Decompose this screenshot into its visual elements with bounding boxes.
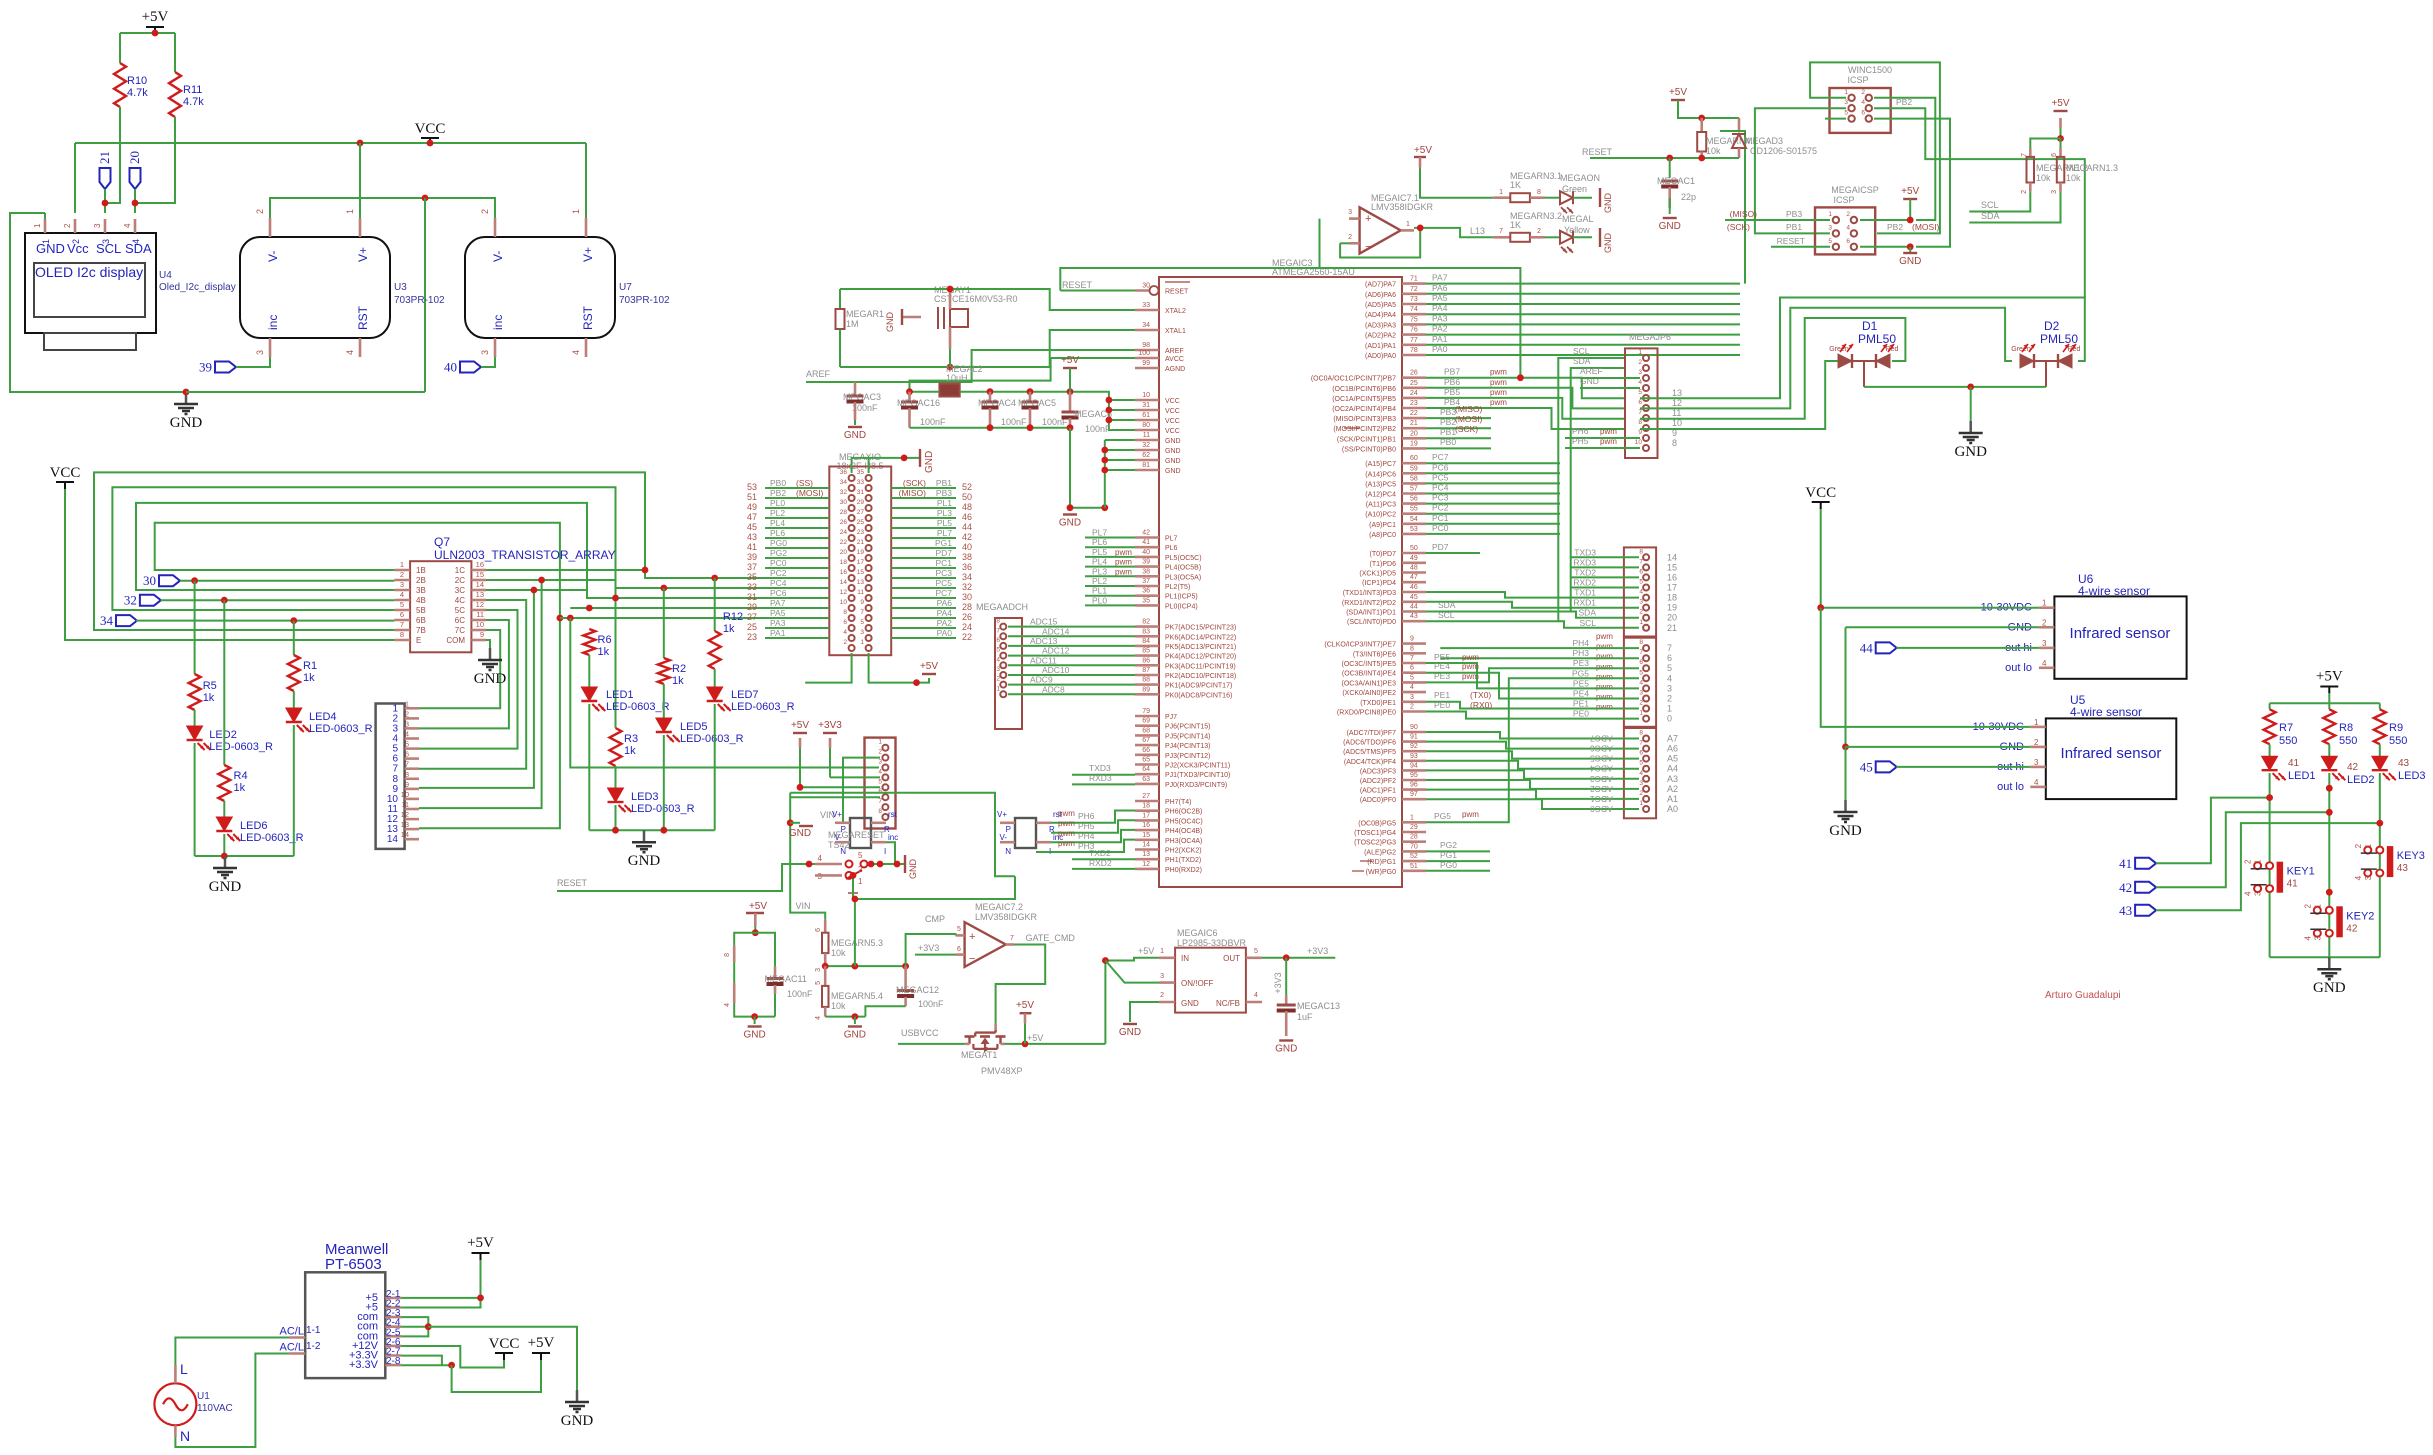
MCU pin 72 (AD6)PA6 xyxy=(1402,292,1426,295)
svg-text:ADC0: ADC0 xyxy=(1590,804,1613,814)
svg-text:R3: R3 xyxy=(624,733,638,745)
wire ICSP MISO row xyxy=(1725,219,1830,221)
MCU pin 2 (RXD0/PCIN8)PE0 xyxy=(1402,710,1426,713)
svg-text:41: 41 xyxy=(2119,856,2132,871)
svg-text:11: 11 xyxy=(857,589,864,596)
ground GND (crystal) xyxy=(902,316,921,318)
svg-text:8: 8 xyxy=(1410,645,1414,652)
flag 30 xyxy=(159,575,180,586)
junction sensor supply xyxy=(1817,604,1824,611)
svg-text:100nF: 100nF xyxy=(787,989,813,999)
junction caps bottom C6 xyxy=(1067,424,1074,431)
wire KEY3 links xyxy=(2379,854,2381,869)
LED LED3 (keys) xyxy=(2379,744,2381,756)
svg-text:3B: 3B xyxy=(416,586,426,595)
svg-text:MEGAC13: MEGAC13 xyxy=(1297,1001,1340,1011)
svg-text:42: 42 xyxy=(2346,923,2358,934)
svg-text:28: 28 xyxy=(1410,834,1418,841)
svg-text:9: 9 xyxy=(480,630,484,639)
svg-text:4: 4 xyxy=(843,629,847,636)
svg-text:41: 41 xyxy=(2288,758,2300,769)
svg-text:(SS/PCINT0)PB0: (SS/PCINT0)PB0 xyxy=(1342,446,1396,453)
wire RXD3 xyxy=(1072,783,1135,785)
svg-text:MEGARN5.3: MEGARN5.3 xyxy=(831,938,883,948)
junction crystal top xyxy=(947,286,954,293)
svg-text:Yellow: Yellow xyxy=(1564,225,1590,235)
wires module right to PH rows xyxy=(1051,811,1135,823)
svg-text:1B: 1B xyxy=(416,566,426,575)
svg-text:GND: GND xyxy=(743,1030,765,1041)
junction SCL xyxy=(102,200,109,207)
svg-text:2: 2 xyxy=(1846,211,1850,218)
wire XIO left row PA3 xyxy=(765,627,829,629)
svg-text:29: 29 xyxy=(747,602,757,612)
MCU pin 60 (A15)PC7 xyxy=(1402,462,1426,465)
svg-text:12: 12 xyxy=(1142,861,1150,868)
wire CMP to op-amp + xyxy=(906,934,956,966)
svg-text:SCL: SCL xyxy=(1981,200,1999,210)
svg-text:10: 10 xyxy=(1142,392,1150,399)
svg-text:8: 8 xyxy=(1639,639,1643,646)
wire PE1 to header xyxy=(1426,702,1639,709)
svg-text:PA2: PA2 xyxy=(937,618,953,628)
svg-text:SCL: SCL xyxy=(1438,610,1455,620)
svg-text:PJ3(PCINT12): PJ3(PCINT12) xyxy=(1165,753,1211,760)
svg-text:PH3: PH3 xyxy=(1078,841,1095,851)
wire XIO left row PL0 xyxy=(765,507,829,509)
svg-text:+5V: +5V xyxy=(2051,98,2069,109)
MCU pin 86 PK3(ADC11/PCINT19) xyxy=(1135,664,1159,667)
wire PE4 to header xyxy=(1426,673,1639,699)
wire op-amp minus input xyxy=(1340,242,1349,244)
svg-text:2: 2 xyxy=(878,749,882,756)
svg-text:2: 2 xyxy=(1861,89,1865,96)
MCU pin 11 GND xyxy=(1135,439,1159,442)
svg-text:75: 75 xyxy=(1410,316,1418,323)
svg-text:SCL: SCL xyxy=(1573,346,1590,356)
svg-text:5: 5 xyxy=(1639,669,1643,676)
wire XIO left row PL6 xyxy=(765,537,829,539)
svg-text:7: 7 xyxy=(1010,935,1014,942)
flag 44 xyxy=(1876,642,1897,653)
svg-text:(AD7)PA7: (AD7)PA7 xyxy=(1365,282,1396,289)
svg-text:50: 50 xyxy=(962,492,972,502)
svg-text:pwm: pwm xyxy=(1600,437,1617,446)
MCU pin 4 (XCK0/AIN0)PE2 xyxy=(1402,691,1426,694)
svg-text:GND: GND xyxy=(1181,999,1199,1008)
ground GND (caps) xyxy=(1063,513,1077,515)
MCU pin 55 (A10)PC2 xyxy=(1402,512,1426,515)
svg-text:(OC0A/OC1C/PCINT7)PB7: (OC0A/OC1C/PCINT7)PB7 xyxy=(1311,376,1396,383)
svg-text:4C: 4C xyxy=(455,596,465,605)
resistor MEGARN4.1 10k xyxy=(1700,118,1703,132)
transistor MEGAT1 PMV48XP xyxy=(994,1024,997,1030)
svg-text:3: 3 xyxy=(2051,190,2058,194)
svg-text:2: 2 xyxy=(1638,359,1642,366)
svg-text:PG2: PG2 xyxy=(1440,840,1457,850)
svg-text:GND: GND xyxy=(1165,438,1181,445)
wire PA7 riser xyxy=(1720,131,1745,284)
svg-text:3: 3 xyxy=(2034,758,2039,767)
wire AVCC xyxy=(1051,357,1135,359)
svg-text:4: 4 xyxy=(2303,936,2312,941)
pins AC/L xyxy=(289,1336,305,1339)
junction V- rail xyxy=(422,195,429,202)
svg-text:(SCL/INT0)PD0: (SCL/INT0)PD0 xyxy=(1347,619,1396,626)
svg-text:703PR-102: 703PR-102 xyxy=(394,295,445,306)
ground GND (keys) xyxy=(2328,957,2331,969)
svg-text:SCL: SCL xyxy=(96,241,121,256)
ground GND (OLED) xyxy=(185,392,188,404)
svg-text:3: 3 xyxy=(2254,891,2263,896)
svg-text:25: 25 xyxy=(747,622,757,632)
svg-text:42: 42 xyxy=(2347,762,2359,773)
ground GND (MEGAL) xyxy=(1599,228,1601,247)
svg-text:3: 3 xyxy=(1639,690,1643,697)
svg-text:COM: COM xyxy=(446,636,465,645)
svg-text:VIN: VIN xyxy=(796,901,811,911)
junction rail LED3 xyxy=(612,827,619,834)
svg-text:64: 64 xyxy=(1142,766,1150,773)
svg-text:GND: GND xyxy=(170,415,203,431)
svg-text:55: 55 xyxy=(1410,506,1418,513)
svg-text:Arturo Guadalupi: Arturo Guadalupi xyxy=(2045,990,2121,1001)
wire +5V to R10/R11 xyxy=(119,32,121,34)
svg-text:3: 3 xyxy=(1639,780,1643,787)
wire crystal bottom rail (XTAL1) xyxy=(840,330,1135,367)
connector 8-pin (MEGARESET) xyxy=(865,738,896,829)
wire GND rail (right chains) xyxy=(589,829,714,831)
svg-text:MEGARN5.4: MEGARN5.4 xyxy=(831,991,883,1001)
svg-text:MEGAC12: MEGAC12 xyxy=(896,985,939,995)
svg-text:3: 3 xyxy=(405,719,409,728)
MCU pin 69 PJ6(PCINT15) xyxy=(1135,724,1159,727)
svg-text:1-1: 1-1 xyxy=(306,1325,321,1336)
svg-text:V-: V- xyxy=(266,251,280,262)
svg-text:R1: R1 xyxy=(303,660,317,672)
svg-text:27: 27 xyxy=(857,509,865,516)
svg-text:11: 11 xyxy=(1143,432,1150,439)
MCU pin 81 GND xyxy=(1135,469,1159,472)
resistor R6 xyxy=(583,629,595,655)
svg-text:AC/L: AC/L xyxy=(280,1342,304,1354)
svg-text:550: 550 xyxy=(2339,735,2357,747)
svg-text:GND: GND xyxy=(1059,518,1081,529)
MCU pin 36 PL1(ICP5) xyxy=(1135,594,1159,597)
svg-text:12: 12 xyxy=(1672,398,1682,408)
svg-text:+5V: +5V xyxy=(749,901,767,912)
ground GND (C13) xyxy=(1279,1039,1293,1041)
svg-text:+5V: +5V xyxy=(1061,355,1079,366)
MCU pin 49 (T1)PD6 xyxy=(1402,561,1426,564)
svg-text:56: 56 xyxy=(1410,496,1418,503)
svg-text:GND: GND xyxy=(209,879,242,895)
svg-text:2: 2 xyxy=(1639,700,1643,707)
wire Q7 pin11 to conn pin3 xyxy=(419,620,509,728)
MCU pin 46 (TXD1/INT3)PD3 xyxy=(1402,591,1426,594)
wire ADC14 xyxy=(1008,635,1135,637)
capacitor MEGAC5 100nF xyxy=(1029,392,1032,402)
svg-text:30: 30 xyxy=(840,499,848,506)
svg-text:4: 4 xyxy=(2244,891,2253,896)
svg-text:VCC: VCC xyxy=(1165,428,1180,435)
svg-text:PB2: PB2 xyxy=(1887,222,1903,232)
wire flag21 to OLED SCL xyxy=(104,189,106,213)
svg-text:3: 3 xyxy=(1410,694,1414,701)
svg-text:PH5: PH5 xyxy=(1572,436,1589,446)
svg-text:8: 8 xyxy=(1638,419,1642,426)
svg-text:pwm: pwm xyxy=(1596,672,1613,681)
wire PH3 stub xyxy=(1440,657,1639,659)
junction caps rail C16 xyxy=(906,388,913,395)
svg-text:PB0: PB0 xyxy=(770,478,786,488)
svg-text:48: 48 xyxy=(962,502,972,512)
wire Q7 pin13 to conn pin7 xyxy=(419,600,526,769)
MCU pin 91 (ADC6/TDO)PF6 xyxy=(1402,740,1426,743)
svg-text:PL4: PL4 xyxy=(1092,557,1107,567)
svg-text:(AD5)PA5: (AD5)PA5 xyxy=(1365,302,1396,309)
wire WINC pin4 right xyxy=(1874,108,2085,297)
junction rail R4 xyxy=(221,853,228,860)
svg-text:PC4: PC4 xyxy=(770,578,787,588)
svg-text:PH7(T4): PH7(T4) xyxy=(1165,799,1191,806)
svg-text:pwm: pwm xyxy=(1462,653,1479,662)
svg-text:20: 20 xyxy=(1410,430,1418,437)
svg-text:GND: GND xyxy=(789,828,811,839)
svg-text:PB3: PB3 xyxy=(936,488,952,498)
svg-text:57: 57 xyxy=(1410,486,1418,493)
wire GND rail xyxy=(186,391,425,393)
svg-text:+5V: +5V xyxy=(1669,87,1687,98)
MCU pin 10 VCC xyxy=(1135,399,1159,402)
svg-text:LP2985-33DBVR: LP2985-33DBVR xyxy=(1177,938,1247,948)
svg-text:6: 6 xyxy=(400,610,404,619)
svg-text:22: 22 xyxy=(962,632,972,642)
svg-text:3: 3 xyxy=(2042,639,2047,648)
svg-text:44: 44 xyxy=(1860,640,1874,655)
svg-text:46: 46 xyxy=(1410,584,1418,591)
wire +5V rail keys xyxy=(2328,693,2330,709)
MCU pin 1 (OC0B)PG5 xyxy=(1402,821,1426,824)
svg-text:PB2: PB2 xyxy=(1440,417,1456,427)
svg-text:6: 6 xyxy=(1639,568,1643,575)
resistor R12 xyxy=(714,578,716,631)
MCU pin 84 PK5(ADC13/PCINT21) xyxy=(1135,645,1159,648)
wires JP6 PH6/PH5 xyxy=(1565,437,1640,439)
junction conn13/L4 row27 xyxy=(557,615,564,622)
svg-text:7: 7 xyxy=(400,620,404,629)
svg-text:PC6: PC6 xyxy=(1432,462,1449,472)
svg-text:V-: V- xyxy=(999,833,1007,842)
svg-text:(SDA/INT1)PD1: (SDA/INT1)PD1 xyxy=(1346,610,1396,617)
svg-text:94: 94 xyxy=(1410,762,1418,769)
svg-text:PD7: PD7 xyxy=(935,548,952,558)
MCU pin 48 (XCK1)PD5 xyxy=(1402,571,1426,574)
svg-text:(TXD1/INT3)PD3: (TXD1/INT3)PD3 xyxy=(1343,590,1396,597)
svg-text:41: 41 xyxy=(1142,539,1150,546)
svg-text:AREF: AREF xyxy=(1165,348,1184,355)
svg-text:78: 78 xyxy=(1410,347,1418,354)
svg-text:(OC3C/INT5)PE5: (OC3C/INT5)PE5 xyxy=(1342,661,1397,668)
svg-text:XTAL2: XTAL2 xyxy=(1165,308,1186,315)
svg-text:MEGARN1.3: MEGARN1.3 xyxy=(2066,163,2118,173)
svg-text:PH6(OC2B): PH6(OC2B) xyxy=(1165,809,1202,816)
svg-text:pwm: pwm xyxy=(1115,567,1132,576)
svg-text:1k: 1k xyxy=(598,646,610,658)
MCU pin 19 (SS/PCINT0)PB0 xyxy=(1402,447,1426,450)
svg-text:49: 49 xyxy=(1410,555,1418,562)
wire divider to switch loop xyxy=(854,899,856,966)
svg-text:5: 5 xyxy=(405,740,409,749)
wire XIO left row PC6 xyxy=(765,597,829,599)
switch KEY3 xyxy=(2364,847,2371,854)
svg-text:1: 1 xyxy=(1406,221,1410,228)
svg-text:15: 15 xyxy=(476,570,484,579)
svg-text:PG1: PG1 xyxy=(1440,850,1457,860)
svg-text:77: 77 xyxy=(1410,337,1418,344)
svg-text:U4: U4 xyxy=(159,270,172,281)
svg-text:PC2: PC2 xyxy=(1432,503,1449,513)
wire PL row PL1 xyxy=(1085,595,1135,597)
svg-text:A2: A2 xyxy=(1667,784,1678,794)
svg-text:+: + xyxy=(969,931,975,943)
capacitor MEGAC1 22p xyxy=(1669,158,1671,178)
svg-text:29: 29 xyxy=(1410,824,1418,831)
svg-text:97: 97 xyxy=(1410,791,1418,798)
MCU pin 37 PL2(T5) xyxy=(1135,585,1159,588)
svg-text:PA7: PA7 xyxy=(770,598,786,608)
svg-text:Green: Green xyxy=(2011,346,2031,353)
svg-text:PC1: PC1 xyxy=(935,558,952,568)
junction +5V xyxy=(152,30,159,37)
svg-text:2: 2 xyxy=(480,209,490,214)
MCU pin 51 (WR)PG0 xyxy=(1402,869,1426,872)
svg-text:GND: GND xyxy=(474,671,507,687)
junction +5V conn8 xyxy=(797,784,804,791)
svg-text:PE1: PE1 xyxy=(1573,699,1589,709)
svg-text:ON/!OFF: ON/!OFF xyxy=(1181,979,1214,988)
svg-text:23: 23 xyxy=(1410,400,1418,407)
MCU pin 92 (ADC5/TMS)PF5 xyxy=(1402,750,1426,753)
svg-text:16: 16 xyxy=(1142,822,1150,829)
svg-text:19: 19 xyxy=(1667,603,1677,613)
wire T1 drain to +5V net xyxy=(1005,1043,1105,1045)
svg-text:VCC: VCC xyxy=(1165,418,1180,425)
svg-text:(A14)PC6: (A14)PC6 xyxy=(1365,471,1396,478)
svg-text:1: 1 xyxy=(1639,800,1643,807)
svg-text:PJ4(PCINT13): PJ4(PCINT13) xyxy=(1165,743,1211,750)
wire U5 GND xyxy=(1846,746,2031,748)
svg-text:6: 6 xyxy=(1638,399,1642,406)
svg-text:8: 8 xyxy=(843,609,847,616)
flag 21 (SCL) xyxy=(100,168,111,189)
wire loop L3 (Q7 pin3 to XIO row31) xyxy=(136,503,829,598)
svg-text:PL0: PL0 xyxy=(770,498,785,508)
svg-text:16: 16 xyxy=(1667,572,1677,582)
svg-text:A4: A4 xyxy=(1667,764,1678,774)
svg-text:100nF: 100nF xyxy=(920,417,946,427)
junction ICSP GND xyxy=(1907,243,1914,250)
svg-text:2: 2 xyxy=(1639,609,1643,616)
svg-text:PA0: PA0 xyxy=(937,628,953,638)
svg-text:PG5: PG5 xyxy=(1572,668,1589,678)
svg-text:10k: 10k xyxy=(2066,173,2081,183)
svg-text:PH4(OC4B): PH4(OC4B) xyxy=(1165,828,1202,835)
svg-text:PMV48XP: PMV48XP xyxy=(981,1066,1023,1076)
svg-text:SDA: SDA xyxy=(1438,600,1456,610)
svg-text:PB1: PB1 xyxy=(936,478,952,488)
svg-text:PA5: PA5 xyxy=(1432,293,1448,303)
svg-text:PH2(XCK2): PH2(XCK2) xyxy=(1165,848,1202,855)
svg-text:15: 15 xyxy=(1142,832,1150,839)
svg-text:46: 46 xyxy=(962,512,972,522)
wire op-amp output node xyxy=(1414,228,1493,237)
svg-text:N: N xyxy=(180,1428,190,1444)
junction XIO +5V xyxy=(913,679,920,686)
wire XIO bottom pins to +5V xyxy=(805,653,851,683)
MCU pin 43 (SCL/INT0)PD0 xyxy=(1402,620,1426,623)
MCU pin 53 (A8)PC0 xyxy=(1402,533,1426,536)
svg-text:47: 47 xyxy=(747,512,757,522)
svg-text:4: 4 xyxy=(1846,224,1850,231)
svg-text:MEGAIC6: MEGAIC6 xyxy=(1177,928,1218,938)
flag 43 (keys) xyxy=(2135,905,2156,916)
svg-text:93: 93 xyxy=(1410,753,1418,760)
svg-text:5: 5 xyxy=(400,600,404,609)
svg-text:2-8: 2-8 xyxy=(386,1356,401,1367)
svg-text:703PR-102: 703PR-102 xyxy=(619,295,670,306)
wire XIO row27 xyxy=(560,617,829,619)
svg-text:34: 34 xyxy=(100,613,114,628)
wire VCC to U7 V+ xyxy=(585,143,587,218)
svg-text:9: 9 xyxy=(1638,429,1642,436)
svg-text:24: 24 xyxy=(1410,390,1418,397)
wire VCC to Q7 E pin xyxy=(65,489,394,640)
wire XIO right row PC3 xyxy=(891,577,956,579)
svg-text:(SCK): (SCK) xyxy=(903,478,926,488)
wire IC6 ON/OFF diagonal xyxy=(1105,961,1159,983)
svg-text:1: 1 xyxy=(2034,718,2039,727)
wire LED2 to KEY2 xyxy=(2328,773,2330,906)
svg-text:pwm: pwm xyxy=(1490,388,1507,397)
svg-text:16: 16 xyxy=(840,569,848,576)
svg-text:AREF: AREF xyxy=(1580,366,1603,376)
wire ICSP pin6 row to GND xyxy=(1860,246,1910,248)
junction RN4.1 top xyxy=(1698,115,1705,122)
svg-text:SDA: SDA xyxy=(1981,211,2000,221)
svg-text:GND: GND xyxy=(1603,193,1613,214)
svg-text:PC3: PC3 xyxy=(1432,493,1449,503)
wire PL row PL2 xyxy=(1085,585,1135,587)
MCU pin 88 PK1(ADC9/PCINT17) xyxy=(1135,683,1159,686)
ground GND (MEGAON) xyxy=(1599,188,1601,207)
svg-text:(ADC2)PF2: (ADC2)PF2 xyxy=(1360,778,1396,785)
svg-text:6: 6 xyxy=(996,637,1000,644)
svg-text:47: 47 xyxy=(1410,574,1418,581)
svg-text:61: 61 xyxy=(1142,412,1150,419)
wire IC6 GND xyxy=(1130,1002,1159,1022)
svg-text:PG0: PG0 xyxy=(1440,860,1457,870)
svg-text:ADC8: ADC8 xyxy=(1042,684,1065,694)
wire XIO right row PC1 xyxy=(891,567,956,569)
svg-text:1: 1 xyxy=(33,223,42,228)
svg-text:(ADC7/TDI)PF7: (ADC7/TDI)PF7 xyxy=(1347,730,1397,737)
svg-text:D1: D1 xyxy=(1862,319,1878,333)
module MEGARESET left xyxy=(850,818,871,848)
svg-text:3: 3 xyxy=(815,968,822,972)
svg-text:PL6: PL6 xyxy=(770,528,785,538)
svg-text:A7: A7 xyxy=(1667,734,1678,744)
